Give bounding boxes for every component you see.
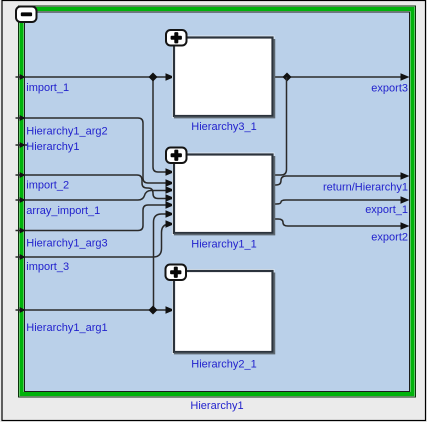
- wire return/Hierarchy1: [274, 176, 408, 185]
- svg-text:Hierarchy1_arg2: Hierarchy1_arg2: [26, 126, 107, 138]
- wire import_2: [16, 175, 174, 199]
- wire Hierarchy1_arg1: [16, 309, 174, 311]
- svg-text:Hierarchy1: Hierarchy1: [190, 400, 243, 412]
- svg-text:import_1: import_1: [26, 82, 69, 94]
- arrow export2 at border: [401, 222, 410, 230]
- wire export_1: [274, 200, 408, 204]
- wire Hierarchy3_1 output to export3: [273, 76, 407, 78]
- expand button plus Hierarchy3_1: [166, 30, 187, 46]
- junction diamond import_1: [149, 73, 158, 82]
- wire import_1: [16, 76, 174, 78]
- arrow return/Hierarchy1 at border: [401, 172, 410, 180]
- svg-text:Hierarchy1_1: Hierarchy1_1: [191, 239, 256, 251]
- port tick Hierarchy1: [20, 142, 26, 148]
- svg-text:Hierarchy1: Hierarchy1: [26, 141, 79, 153]
- port tick array_import_1: [20, 197, 26, 203]
- junction diamond Hierarchy1_arg1: [149, 306, 158, 315]
- block Hierarchy3_1: [174, 38, 273, 117]
- wire import_1 branch down to Hierarchy1_1: [153, 77, 173, 172]
- arrow export_1 at border: [401, 196, 410, 204]
- block Hierarchy2_1 halo: [173, 270, 274, 354]
- expand button plus Hierarchy2_1: [166, 265, 187, 281]
- svg-text:Hierarchy1_arg1: Hierarchy1_arg1: [26, 322, 107, 334]
- svg-text:Hierarchy3_1: Hierarchy3_1: [191, 121, 256, 133]
- wire import_3: [16, 224, 174, 257]
- port tick Hierarchy1_arg3: [20, 228, 26, 234]
- arrow into Hierarchy3_1: [166, 73, 175, 81]
- wire Hierarchy1_arg2: [16, 118, 174, 183]
- arrow into Hierarchy2_1: [166, 306, 175, 314]
- wire export3 branch down into Hierarchy1_1 right side: [274, 77, 287, 175]
- svg-text:export2: export2: [371, 232, 408, 244]
- port tick import_2: [20, 172, 26, 178]
- svg-text:array_import_1: array_import_1: [26, 205, 100, 217]
- expand button plus Hierarchy1_1: [166, 148, 187, 164]
- block Hierarchy1_1 halo: [173, 153, 274, 234]
- port tick Hierarchy1_arg2: [20, 115, 26, 121]
- svg-text:export3: export3: [371, 83, 408, 95]
- arrows into Hierarchy1_1 left: [166, 168, 175, 176]
- svg-text:export_1: export_1: [365, 204, 408, 216]
- svg-text:return/Hierarchy1: return/Hierarchy1: [323, 182, 408, 194]
- junction diamond export3: [283, 73, 292, 82]
- port tick import_3: [20, 254, 26, 260]
- wire array_import_1: [16, 191, 174, 201]
- port tick Hierarchy1_arg1: [20, 307, 26, 313]
- arrow export3 at border: [401, 73, 410, 81]
- block Hierarchy3_1 halo: [173, 36, 274, 117]
- wire Hierarchy1_arg1 branch up to Hierarchy1_1: [154, 214, 174, 310]
- svg-text:import_3: import_3: [26, 261, 69, 273]
- block Hierarchy1_1: [174, 155, 273, 234]
- block Hierarchy2_1: [174, 271, 273, 352]
- wire export2: [274, 219, 408, 226]
- svg-text:import_2: import_2: [26, 180, 69, 192]
- svg-text:Hierarchy1_arg3: Hierarchy1_arg3: [26, 238, 107, 250]
- wire Hierarchy1_arg3: [16, 205, 174, 231]
- collapse button minus: [16, 7, 37, 23]
- port tick import_1: [20, 74, 26, 80]
- wire Hierarchy1 stub: [16, 144, 28, 146]
- svg-text:Hierarchy2_1: Hierarchy2_1: [191, 359, 256, 371]
